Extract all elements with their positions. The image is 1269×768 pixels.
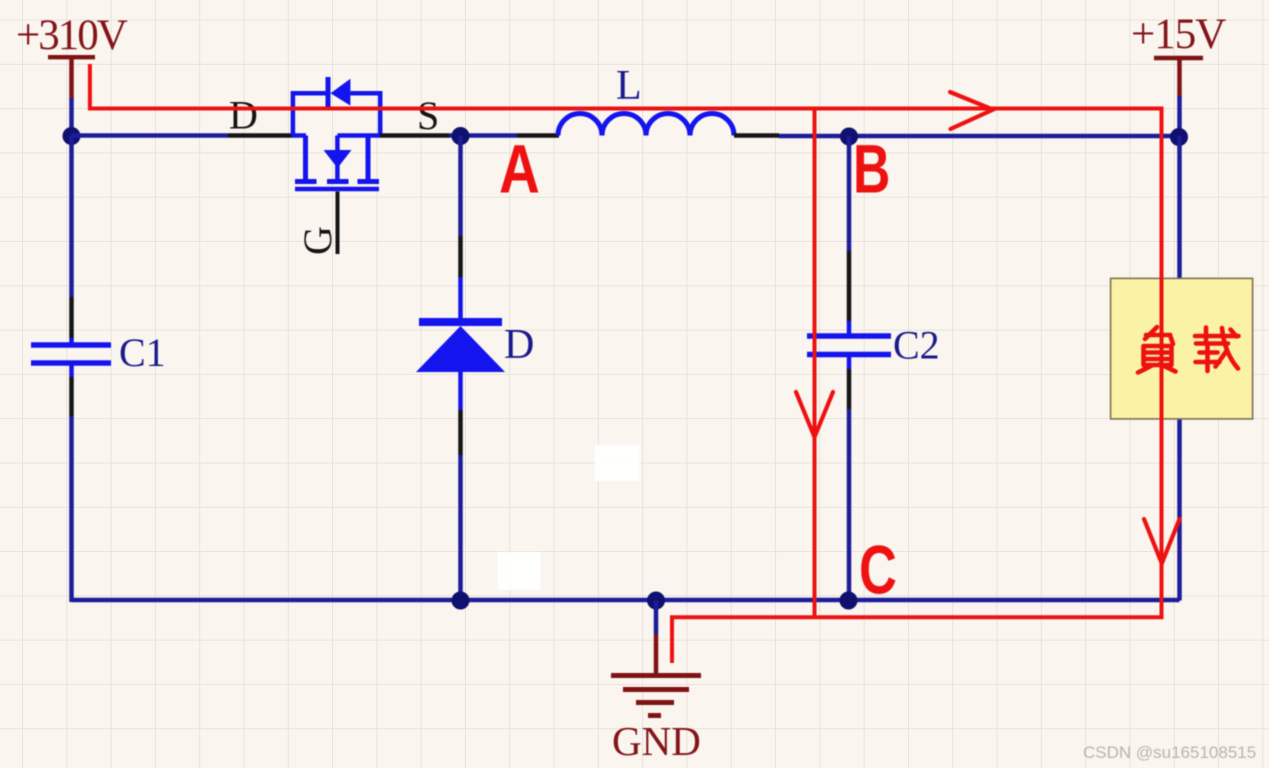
svg-text:C: C: [859, 532, 897, 609]
white patch 1: [595, 445, 641, 481]
capacitor C1 bottom lead: [69, 365, 74, 602]
wire diode top pin (blue): [458, 277, 463, 322]
white patch 2: [498, 552, 541, 590]
red arrow down (right rail): [1144, 519, 1180, 564]
power bar symbol +310V: [48, 57, 95, 99]
load label 负: [1138, 327, 1176, 373]
svg-text:B: B: [853, 130, 890, 207]
label C1: [119, 330, 166, 375]
wire D pin lead (black): [228, 133, 292, 138]
node at +15V junction dot: [1170, 128, 1188, 146]
wire L left pin lead (black): [517, 133, 559, 138]
red branch through C2 side: [813, 109, 817, 618]
node A junction dot: [452, 127, 470, 145]
svg-text:C1: C1: [119, 330, 166, 375]
wire gate lead (black): [336, 192, 340, 255]
label D (diode): [504, 322, 534, 368]
label GND: [612, 718, 701, 764]
svg-text:GND: GND: [612, 718, 701, 764]
capacitor C2 bottom lead: [847, 356, 852, 601]
node diode bottom junction dot: [452, 592, 470, 610]
wire right rail (load to bottom): [1177, 136, 1182, 601]
node C junction dot: [840, 592, 858, 610]
power bar symbol +15V: [1154, 58, 1203, 97]
pin label G (rotated): [295, 226, 340, 255]
svg-text:G: G: [295, 226, 340, 255]
capacitor C2 leads top: [847, 136, 852, 335]
wire top rail left (node to D lead): [72, 133, 229, 138]
power label +15V: [1131, 11, 1226, 58]
svg-text:+15V: +15V: [1131, 11, 1226, 58]
load box: [1111, 278, 1253, 419]
wire diode to bottom rail (blue): [458, 455, 463, 601]
watermark: [1083, 743, 1256, 762]
power label +310V: [16, 12, 128, 59]
wire L right pin lead (black): [734, 133, 779, 138]
transistor Q1 MOSFET body: [292, 136, 380, 190]
capacitor C1 leads: [69, 136, 74, 344]
node B junction dot: [840, 128, 858, 146]
node GND junction dot: [647, 592, 665, 610]
svg-text:CSDN @su165108515: CSDN @su165108515: [1083, 743, 1256, 762]
inductor L: [558, 114, 734, 136]
node label C: [859, 532, 897, 609]
diode D: [416, 322, 505, 410]
wire +15V stub to node: [1177, 96, 1182, 137]
wire top rail right to +15V node: [779, 134, 1180, 139]
svg-text:+310V: +310V: [16, 12, 128, 59]
red arrow right (top rail): [950, 92, 993, 129]
pin label D: [229, 93, 258, 138]
capacitor C1: [31, 345, 111, 363]
svg-text:C2: C2: [893, 323, 940, 368]
svg-text:D: D: [229, 93, 258, 138]
svg-text:A: A: [499, 131, 540, 208]
capacitor C2: [807, 336, 891, 355]
wire +310V stub to node: [69, 98, 74, 136]
svg-text:D: D: [504, 322, 534, 368]
red current path from +310V: [90, 64, 1162, 663]
wire diode bottom pin (black): [458, 410, 463, 455]
transistor Q1 body diode loop: [293, 77, 380, 136]
wire GND tap (maroon): [654, 634, 659, 676]
ground symbol: [611, 676, 701, 716]
wire S pin lead (black): [380, 133, 449, 138]
red arrow down (C2 branch): [796, 392, 833, 437]
wire GND tap (blue): [654, 601, 659, 635]
node label A: [499, 131, 540, 208]
node +310V junction dot: [63, 127, 81, 145]
node label B: [853, 130, 890, 207]
svg-text:S: S: [417, 93, 439, 138]
svg-text:L: L: [616, 63, 642, 109]
load label 载: [1195, 328, 1239, 372]
wire node A segment: [449, 133, 517, 138]
label C2: [893, 323, 940, 368]
label L: [616, 63, 642, 109]
pin label S: [417, 93, 439, 138]
wire bottom rail: [72, 598, 1180, 603]
wire diode top pin (black): [458, 236, 463, 277]
wire A node down to diode (blue): [458, 136, 463, 236]
